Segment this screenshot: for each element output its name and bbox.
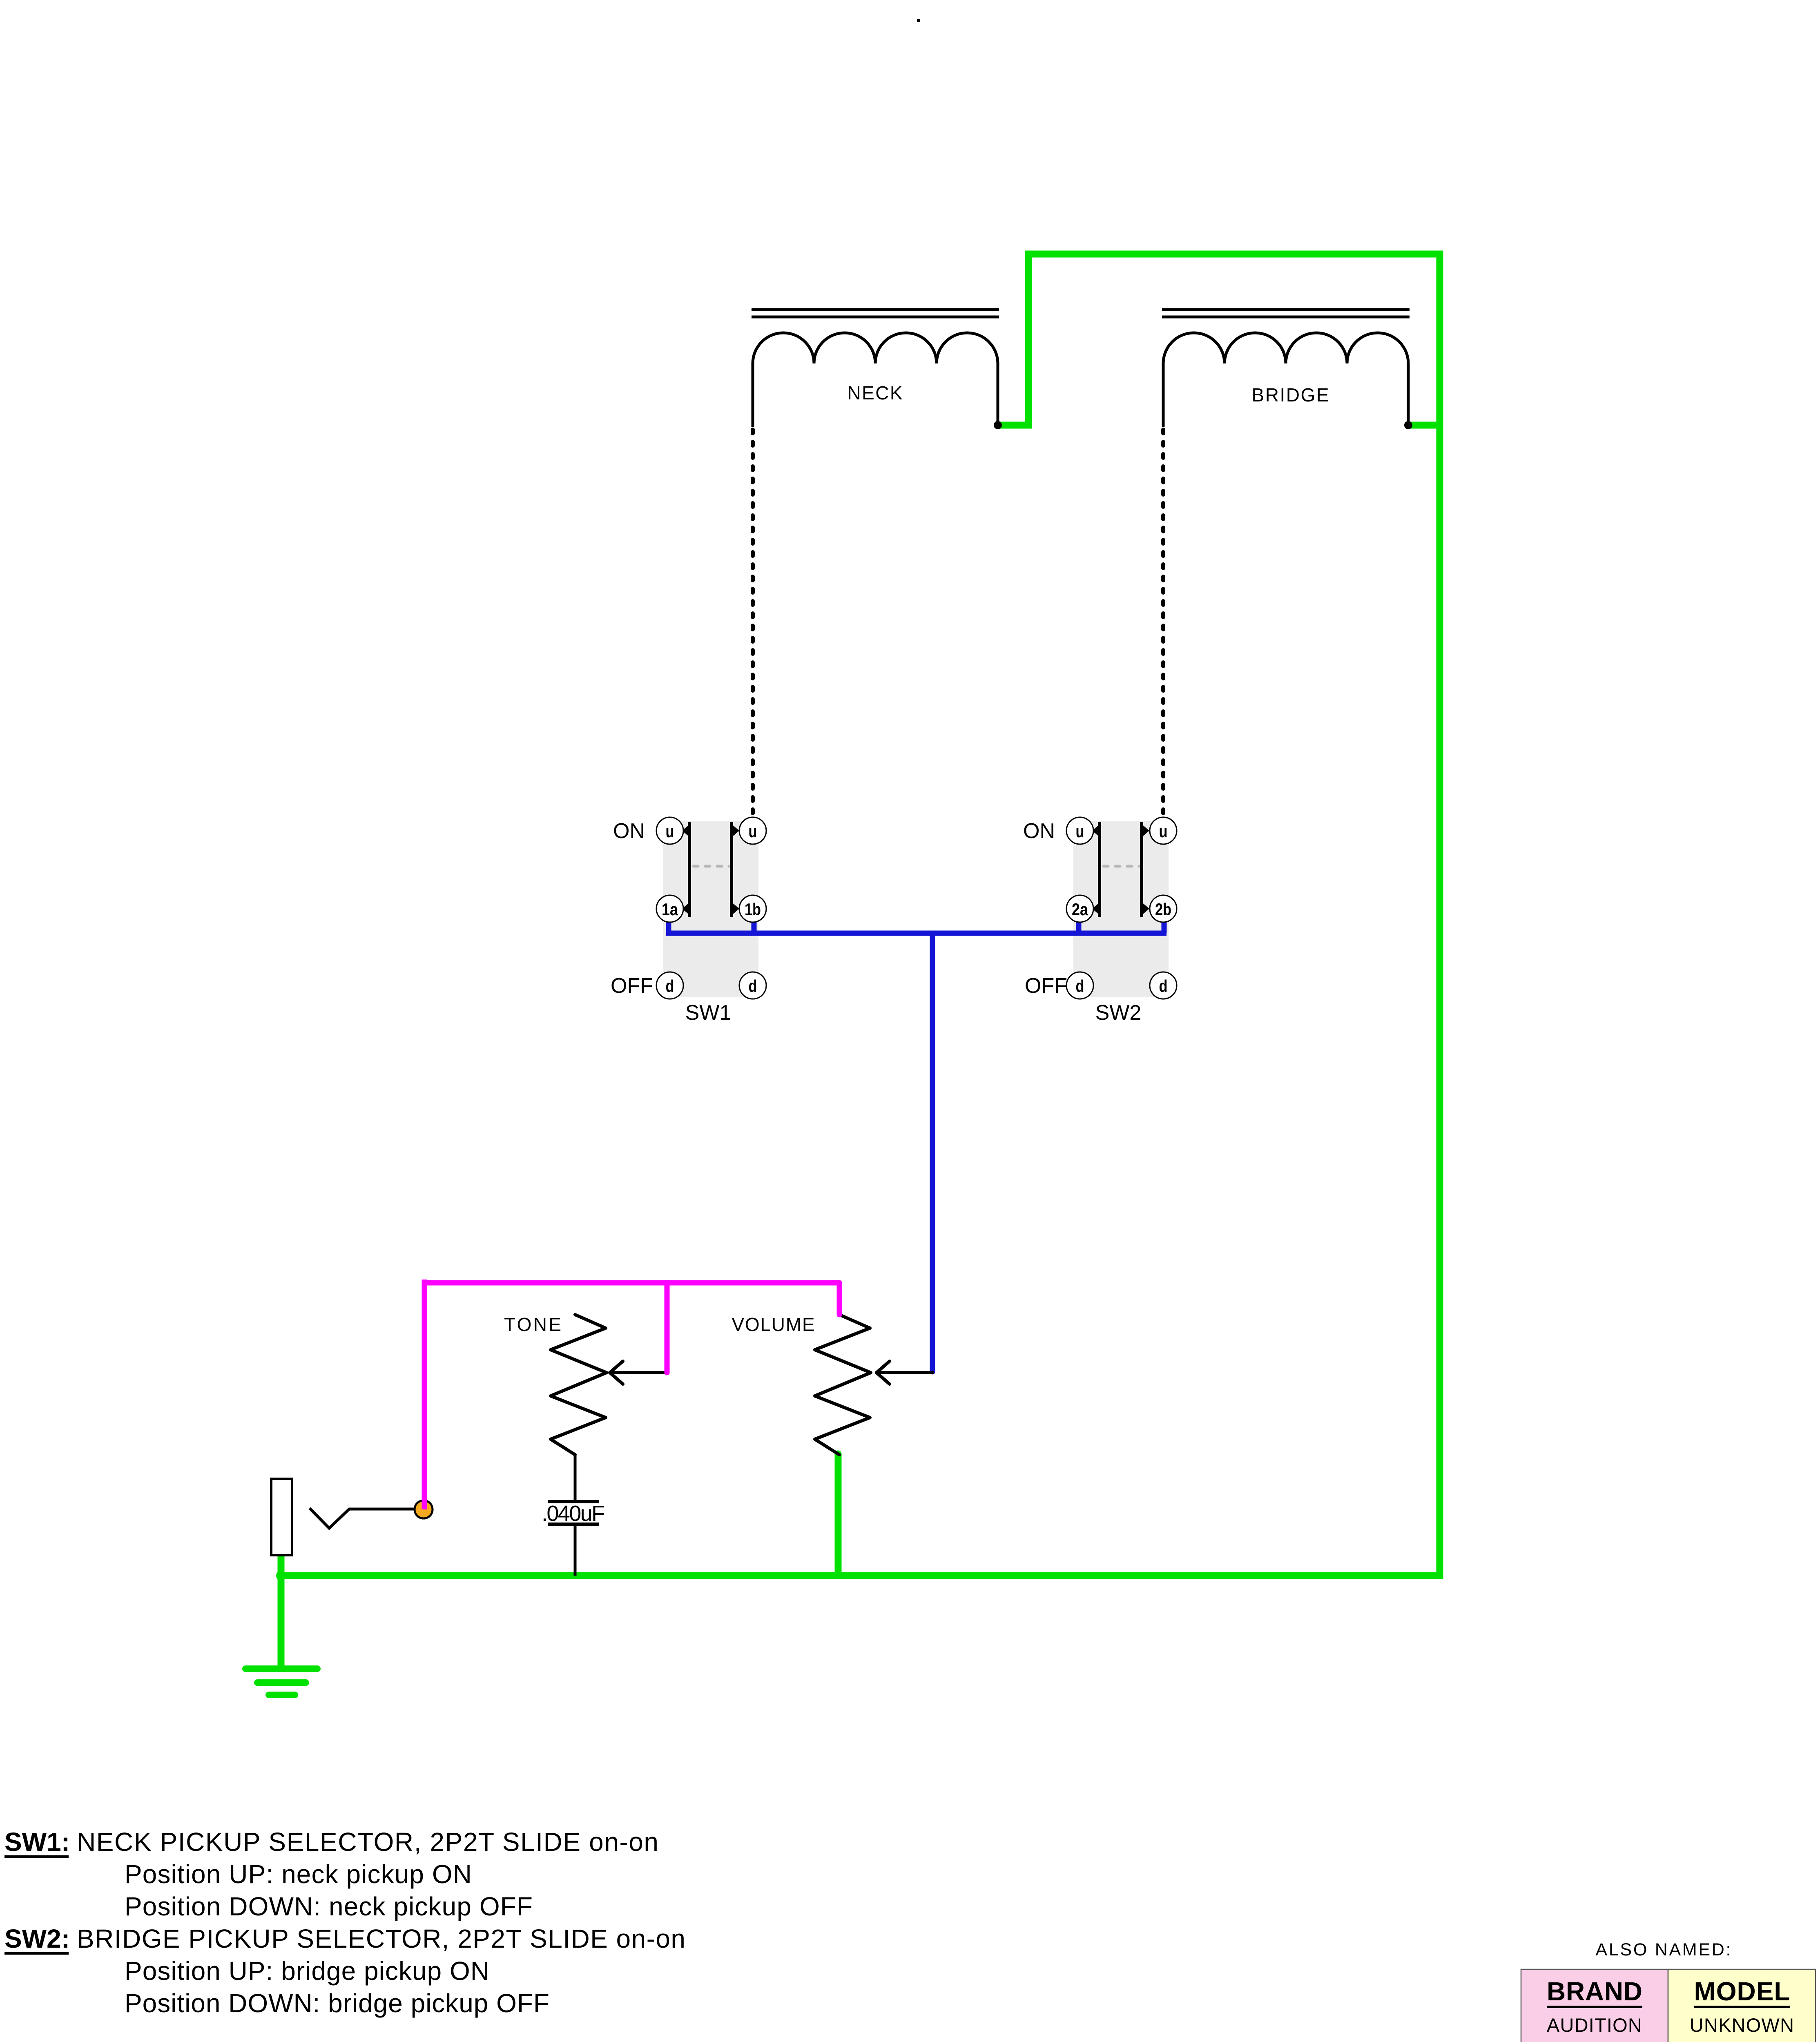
- svg-text:ALSO NAMED:: ALSO NAMED:: [1596, 1940, 1731, 1960]
- svg-text:1a: 1a: [662, 900, 678, 919]
- wire magenta tone-wiper stub: [665, 1283, 670, 1373]
- SW2 terminal 2a: [1066, 895, 1093, 922]
- wire green bridge-out stub: [1408, 422, 1440, 429]
- SW2 terminal u pole b: [1150, 817, 1177, 844]
- SW2 pole a contact bar: [1092, 822, 1101, 917]
- SW2 terminal 2b: [1150, 895, 1177, 922]
- junction dot bridge finish: [1404, 421, 1412, 429]
- pickup NECK coil: [753, 333, 998, 427]
- svg-text:TONE: TONE: [504, 1314, 561, 1335]
- wire magenta top bus: [424, 1280, 839, 1286]
- svg-text:d: d: [1159, 976, 1168, 996]
- also-named table brand column background: [1521, 1969, 1668, 2042]
- wire bridge start (dashed): [1161, 430, 1165, 816]
- svg-text:d: d: [1076, 976, 1084, 996]
- svg-text:UNKNOWN: UNKNOWN: [1690, 2014, 1794, 2036]
- svg-text:MODEL: MODEL: [1694, 1977, 1790, 2006]
- VOLUME wiper arrow: [877, 1361, 932, 1384]
- wire green top bus: [1025, 251, 1443, 258]
- pickup BRIDGE magnet bar: [1162, 310, 1410, 317]
- SW1 actuator link (dashed): [694, 865, 729, 868]
- svg-text:2a: 2a: [1072, 900, 1088, 919]
- svg-text:VOLUME: VOLUME: [732, 1314, 815, 1335]
- wire green volume-ground stub: [835, 1454, 842, 1576]
- wire green neck-out stub: [998, 422, 1032, 429]
- junction dot neck finish: [994, 421, 1002, 429]
- SW1 terminal d pole b: [739, 972, 766, 999]
- svg-text:DANA: DANA: [1567, 2039, 1622, 2042]
- output jack tip terminal: [415, 1500, 433, 1518]
- potentiometer TONE: [551, 1315, 607, 1455]
- svg-text:SW1: SW1: [685, 1001, 732, 1025]
- TONE wiper arrow: [610, 1361, 667, 1384]
- SW1 terminal d pole a: [656, 972, 683, 999]
- wire blue SW1 1a stub: [666, 917, 671, 933]
- svg-text:u: u: [749, 822, 757, 841]
- ground symbol: [245, 1669, 317, 1695]
- wire blue selector bus: [666, 931, 1166, 936]
- svg-text:2b: 2b: [1155, 900, 1171, 919]
- svg-text:d: d: [666, 976, 674, 996]
- svg-text:1b: 1b: [745, 900, 761, 919]
- SW2 actuator link (dashed): [1104, 865, 1140, 868]
- svg-text:OFF: OFF: [1025, 974, 1067, 998]
- svg-text:.040uF: .040uF: [542, 1501, 605, 1526]
- note SW2 description line 1: [4, 1924, 685, 1953]
- wire blue SW2 2b stub: [1162, 917, 1167, 933]
- page dot: [917, 19, 920, 22]
- SW1 pole a contact bar: [682, 822, 691, 917]
- svg-text:SW2: SW2: [1095, 1001, 1142, 1025]
- svg-text:ON: ON: [613, 819, 645, 843]
- output jack sleeve: [271, 1479, 292, 1555]
- SW1 terminal 1a: [656, 895, 683, 922]
- SW2 terminal d pole a: [1066, 972, 1093, 999]
- SW1 terminal 1b: [739, 895, 766, 922]
- note SW1 description line 1: [4, 1827, 658, 1857]
- wire blue SW2 2a stub: [1076, 917, 1082, 933]
- wire green bottom bus: [278, 1572, 1443, 1579]
- capacitor C1 plates: [548, 1502, 599, 1524]
- capacitor C1 top lead: [574, 1455, 577, 1500]
- svg-text:u: u: [1159, 822, 1168, 841]
- SW1 terminal u pole b: [739, 817, 766, 844]
- svg-text:BRAND: BRAND: [1547, 1977, 1642, 2006]
- wire blue SW1 1b stub: [752, 917, 757, 933]
- svg-text:Position DOWN: bridge pickup O: Position DOWN: bridge pickup OFF: [125, 1988, 549, 2018]
- switch SW2 body: [1073, 821, 1169, 997]
- junction dot jack-ground: [276, 1571, 286, 1581]
- svg-text:OFF: OFF: [611, 974, 653, 998]
- svg-text:SW2:: SW2:: [4, 1924, 70, 1953]
- potentiometer VOLUME: [815, 1315, 871, 1455]
- wire magenta jack riser: [422, 1280, 427, 1509]
- SW1 pole b contact bar: [730, 822, 739, 917]
- also-named table model column background: [1668, 1969, 1816, 2042]
- svg-text:AUDITION: AUDITION: [1547, 2014, 1642, 2036]
- SW2 pole b contact bar: [1140, 822, 1149, 917]
- table row AUDITION / UNKNOWN: [1547, 2014, 1794, 2036]
- wire green right bus: [1436, 251, 1443, 1579]
- svg-text:ON: ON: [1023, 819, 1055, 843]
- capacitor C1 bottom lead: [574, 1526, 577, 1576]
- svg-text:BRIDGE PICKUP SELECTOR, 2P2T S: BRIDGE PICKUP SELECTOR, 2P2T SLIDE on-on: [77, 1924, 685, 1953]
- SW2 terminal u pole a: [1066, 817, 1093, 844]
- svg-text:NECK PICKUP SELECTOR, 2P2T SLI: NECK PICKUP SELECTOR, 2P2T SLIDE on-on: [77, 1827, 658, 1857]
- wire green jack-ground stub: [278, 1554, 285, 1669]
- svg-text:u: u: [666, 822, 674, 841]
- wire magenta volume-top stub: [837, 1283, 842, 1315]
- wire green left riser: [1025, 251, 1032, 428]
- svg-text:Position UP: bridge pickup ON: Position UP: bridge pickup ON: [125, 1956, 489, 1986]
- table row DANA / FT 25: [1567, 2039, 1768, 2042]
- SW1 terminal u pole a: [656, 817, 683, 844]
- svg-text:BRIDGE: BRIDGE: [1252, 384, 1329, 406]
- svg-text:d: d: [749, 976, 757, 996]
- svg-text:Position DOWN: neck pickup OFF: Position DOWN: neck pickup OFF: [125, 1892, 533, 1921]
- svg-text:Position UP: neck pickup ON: Position UP: neck pickup ON: [125, 1859, 472, 1889]
- svg-text:SW1:: SW1:: [4, 1827, 70, 1857]
- switch SW1 body: [663, 821, 758, 997]
- wire neck start (dashed): [751, 430, 755, 816]
- svg-text:u: u: [1076, 822, 1084, 841]
- pickup NECK magnet bar: [752, 310, 999, 317]
- svg-text:NECK: NECK: [848, 382, 903, 403]
- svg-text:FT 25: FT 25: [1716, 2039, 1768, 2042]
- pickup BRIDGE coil: [1163, 333, 1408, 427]
- wire blue trunk to volume wiper: [930, 933, 935, 1372]
- SW2 terminal d pole b: [1150, 972, 1177, 999]
- output jack tip contact: [310, 1508, 415, 1528]
